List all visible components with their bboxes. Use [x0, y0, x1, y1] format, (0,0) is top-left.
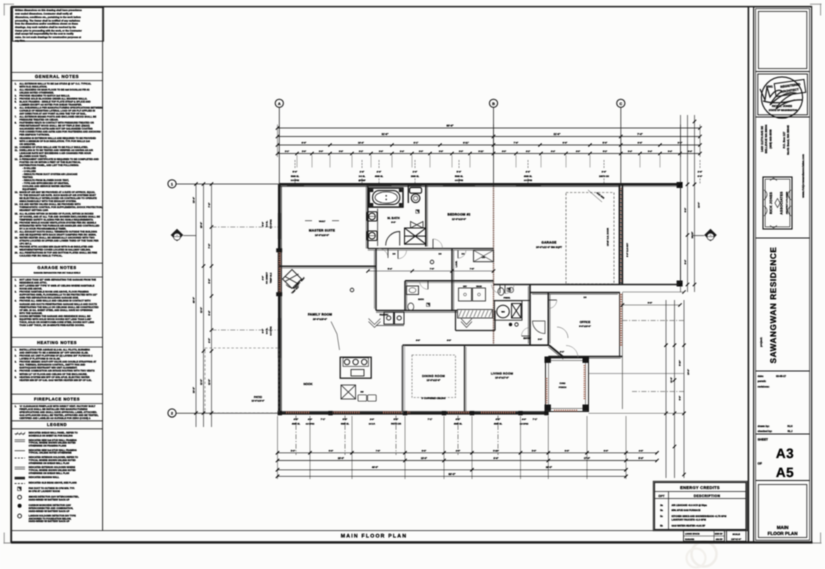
interior wall bedroom2 west — [425, 184, 427, 246]
svg-text:69'-0": 69'-0" — [448, 473, 456, 476]
svg-text:20'-6"x21'-6" 596 SQFT: 20'-6"x21'-6" 596 SQFT — [536, 246, 563, 249]
interior wall master-family — [279, 265, 376, 267]
svg-text:2'-6": 2'-6" — [698, 171, 703, 174]
svg-text:9' COFFERED CEILING: 9' COFFERED CEILING — [422, 397, 446, 400]
svg-text:1.: 1. — [15, 279, 17, 282]
svg-text:5.: 5. — [15, 101, 17, 104]
svg-text:6.: 6. — [15, 107, 17, 110]
svg-text:3'-0": 3'-0" — [419, 150, 423, 153]
master bath vanity sinks — [377, 209, 379, 246]
general notes header — [11, 71, 102, 73]
svg-text:9'-0": 9'-0" — [563, 142, 568, 145]
svg-text:11'-6": 11'-6" — [208, 379, 211, 385]
svg-text:5'-0": 5'-0" — [293, 171, 298, 174]
svg-text:5'-6": 5'-6" — [422, 449, 426, 452]
svg-text:PATIO DR: PATIO DR — [391, 422, 402, 425]
grid line B stem — [493, 107, 495, 186]
svg-text:1620 SF: 1620 SF — [715, 533, 724, 536]
svg-text:2'-1": 2'-1" — [285, 150, 289, 153]
office bottom wall — [548, 356, 622, 358]
svg-text:4'-0": 4'-0" — [456, 449, 460, 452]
svg-text:5.: 5. — [15, 315, 17, 318]
svg-text:46'-0": 46'-0" — [372, 466, 378, 469]
svg-text:3'-0": 3'-0" — [538, 338, 542, 341]
svg-text:7'-0": 7'-0" — [637, 133, 643, 136]
svg-text:LAVATORY FAUCETS <1.0 GPM: LAVATORY FAUCETS <1.0 GPM — [672, 519, 706, 522]
svg-text:4.0 DPS2: 4.0 DPS2 — [306, 422, 315, 425]
svg-text:M. BATH: M. BATH — [387, 216, 399, 220]
svg-text:SAWANGWAN RESIDENCE: SAWANGWAN RESIDENCE — [769, 247, 778, 364]
svg-text:4'-0": 4'-0" — [456, 418, 461, 421]
svg-text:permit:: permit: — [758, 380, 767, 383]
svg-text:SMOKE DETECTOR 110V INTERCONNE: SMOKE DETECTOR 110V INTERCONNECTED, — [29, 496, 80, 499]
exterior wall bottom — [279, 412, 546, 415]
laundry room extension — [455, 311, 457, 331]
svg-text:8'-0" CLG HGT: 8'-0" CLG HGT — [626, 242, 629, 257]
svg-text:7'-6": 7'-6" — [514, 142, 519, 145]
svg-text:www.rickjonesandassociates.com: www.rickjonesandassociates.com — [802, 154, 805, 199]
grid bubble C — [617, 99, 625, 107]
grid bubble B — [489, 99, 497, 107]
svg-text:project:: project: — [760, 337, 763, 347]
svg-text:P.O. Box 127: P.O. Box 127 — [782, 131, 786, 148]
garage door hatch ladder — [619, 188, 623, 189]
svg-text:2.: 2. — [15, 355, 17, 358]
svg-text:HEATER MIN EF OF 0.93. GAS WAT: HEATER MIN EF OF 0.93. GAS WATER HEATER … — [19, 379, 92, 382]
svg-text:THAN 1-3/8" THICK, OR 20-MINUT: THAN 1-3/8" THICK, OR 20-MINUTE FIRE-RAT… — [19, 324, 84, 327]
entry door arcs — [533, 321, 546, 334]
svg-text:ENERGY CREDITS: ENERGY CREDITS — [680, 485, 720, 490]
svg-text:OPT: OPT — [658, 494, 664, 498]
svg-text:21'-6": 21'-6" — [554, 133, 562, 136]
svg-text:6'-6": 6'-6" — [638, 142, 643, 145]
top extension lines — [277, 125, 279, 158]
svg-text:HEATING NOTES: HEATING NOTES — [37, 340, 77, 345]
svg-text:4040 SL: 4040 SL — [454, 422, 463, 425]
bottom dimension row 2 — [278, 460, 658, 462]
office east wall red hatch — [619, 293, 621, 357]
svg-text:OFFICE: OFFICE — [580, 320, 591, 324]
svg-text:4'-0": 4'-0" — [294, 418, 299, 421]
laundry counter hatch — [458, 310, 493, 319]
interior wall hallbath-laundry — [451, 249, 453, 311]
svg-text:date:: date: — [758, 375, 764, 378]
entry diagonal wall — [549, 345, 564, 357]
svg-text:TYPICAL WHERE SHOWN UNLESS NOT: TYPICAL WHERE SHOWN UNLESS NOTED — [29, 459, 76, 462]
svg-text:5'-0": 5'-0" — [639, 457, 644, 460]
svg-text:3'-4": 3'-4" — [400, 150, 404, 153]
svg-text:6'-0": 6'-0" — [329, 449, 333, 452]
svg-text:10'-4": 10'-4" — [358, 142, 364, 145]
svg-text:GARAGE: GARAGE — [541, 241, 556, 245]
bottom extension lines — [277, 416, 279, 479]
bath door arc — [386, 232, 400, 246]
svg-text:13.: 13. — [15, 191, 19, 194]
top wall windows — [287, 183, 304, 186]
porch wall red dashes — [546, 378, 548, 404]
fan symbols — [416, 210, 419, 213]
svg-text:21'-0": 21'-0" — [698, 202, 701, 208]
svg-text:19.: 19. — [15, 245, 19, 248]
svg-text:4'-6": 4'-6" — [639, 449, 643, 452]
svg-text:6'-0": 6'-0" — [394, 418, 399, 421]
porch posts — [545, 357, 551, 363]
svg-text:8'-4": 8'-4" — [684, 260, 687, 264]
interior wall corridor south of baths — [368, 248, 494, 250]
grid line 2 — [176, 412, 280, 414]
legend header — [11, 420, 102, 422]
svg-text:2-8: 2-8 — [584, 296, 587, 299]
svg-text:4040 SL: 4040 SL — [375, 175, 384, 178]
svg-text:02-05-17: 02-05-17 — [776, 375, 787, 378]
interior wall bath2 west — [404, 281, 406, 311]
svg-text:2-6: 2-6 — [462, 253, 465, 256]
svg-text:5'-2": 5'-2" — [603, 150, 607, 153]
svg-text:40'-0": 40'-0" — [193, 297, 196, 303]
grid bubble 1 — [168, 180, 176, 188]
fireplace direct vent diamond — [283, 270, 302, 289]
svg-text:3'-8": 3'-8" — [439, 150, 443, 153]
svg-text:4'-2": 4'-2" — [526, 150, 530, 153]
area tabulation box — [684, 531, 725, 542]
svg-text:4'-6": 4'-6" — [416, 339, 420, 342]
living dining top wall — [403, 344, 550, 346]
svg-text:revisions:: revisions: — [758, 385, 770, 388]
svg-text:5'-6": 5'-6" — [262, 222, 265, 226]
svg-text:3'-0": 3'-0" — [319, 150, 323, 153]
svg-text:TEMP GLZ: TEMP GLZ — [270, 272, 273, 283]
svg-text:12'-0"x12'-6": 12'-0"x12'-6" — [427, 379, 441, 382]
heating notes header — [11, 336, 102, 338]
svg-text:6'-0": 6'-0" — [698, 175, 703, 178]
rick jones associates logo — [763, 177, 792, 229]
svg-text:PANTRY: PANTRY — [380, 314, 389, 317]
svg-text:ASSOCIATES: ASSOCIATES — [780, 191, 784, 215]
svg-text:12'-0"x13'-0": 12'-0"x13'-0" — [452, 218, 466, 221]
svg-text:LIVING ROOM: LIVING ROOM — [491, 372, 514, 376]
svg-text:31'-6": 31'-6" — [382, 133, 390, 136]
svg-text:8'-9": 8'-9" — [302, 142, 307, 145]
svg-text:9.: 9. — [15, 137, 17, 140]
svg-text:11'-0": 11'-0" — [200, 307, 203, 313]
svg-text:3'-8": 3'-8" — [339, 150, 343, 153]
svg-text:6-0 SL: 6-0 SL — [266, 327, 269, 334]
title block cell dividers — [756, 71, 810, 73]
svg-text:FAMILY ROOM: FAMILY ROOM — [308, 313, 332, 317]
right vertical dimension lines garage — [680, 115, 682, 292]
svg-text:3'-4": 3'-4" — [668, 150, 672, 153]
svg-text:DW: DW — [361, 391, 364, 394]
toilet alcove wall — [407, 184, 409, 203]
svg-text:3'-4": 3'-4" — [648, 150, 652, 153]
svg-text:LEGEND: LEGEND — [47, 422, 67, 427]
svg-text:3'-4": 3'-4" — [688, 150, 692, 153]
watermark circle bottom right — [692, 542, 717, 567]
svg-text:23'-0": 23'-0" — [338, 457, 344, 460]
svg-text:2: 2 — [171, 412, 173, 416]
title block outer frame — [754, 7, 812, 543]
svg-text:4040 SL: 4040 SL — [494, 422, 503, 425]
svg-text:A3: A3 — [776, 446, 794, 461]
garage door wall grid C — [619, 184, 621, 284]
kitchen island with cooktop — [340, 357, 371, 378]
svg-text:CVRD: CVRD — [560, 382, 566, 385]
svg-text:TYPICAL WHERE SHOWN UNLESS NOT: TYPICAL WHERE SHOWN UNLESS NOTED — [29, 469, 76, 472]
garage notes header — [11, 262, 102, 264]
svg-text:1: 1 — [171, 182, 173, 186]
svg-text:7'-6": 7'-6" — [470, 268, 474, 271]
kitchen counter edge — [376, 325, 404, 327]
svg-text:4040 SL: 4040 SL — [524, 175, 533, 178]
svg-text:BATH: BATH — [418, 298, 424, 301]
svg-text:DINING ROOM: DINING ROOM — [422, 374, 445, 378]
svg-text:2'-0": 2'-0" — [370, 418, 374, 421]
svg-text:4'-4": 4'-4" — [551, 150, 555, 153]
svg-text:HARD-WIRED W/ BATTERY BACK-UP: HARD-WIRED W/ BATTERY BACK-UP — [29, 499, 70, 502]
svg-text:4'-0": 4'-0" — [576, 150, 580, 153]
svg-text:OTHERWISE ON FRAMING PLANS: OTHERWISE ON FRAMING PLANS — [29, 445, 67, 448]
svg-text:INDICATES BEARING WALL: INDICATES BEARING WALL — [29, 476, 60, 479]
bottom dimension row 1 — [278, 452, 658, 454]
svg-text:4'-0": 4'-0" — [496, 418, 501, 421]
svg-text:(408) 443-3008: (408) 443-3008 — [768, 129, 772, 149]
svg-text:20.: 20. — [15, 252, 19, 255]
svg-text:6-0 DPS2: 6-0 DPS2 — [270, 326, 273, 336]
svg-text:SHEET: SHEET — [758, 438, 768, 442]
svg-text:5'-10": 5'-10" — [679, 360, 682, 366]
svg-text:OF: OF — [758, 462, 762, 466]
svg-text:3.: 3. — [15, 361, 17, 364]
interior wall kitchen north — [376, 310, 457, 312]
stamp signature — [760, 87, 803, 109]
interior wall dining east — [464, 345, 466, 411]
svg-text:4'-0": 4'-0" — [308, 418, 312, 421]
svg-text:6040 SL: 6040 SL — [341, 422, 350, 425]
architect stamp seal — [761, 77, 802, 118]
section marker left — [171, 229, 196, 242]
garage interior dashed outline — [566, 193, 614, 285]
svg-text:HARD-WIRED W/ BATTERY BACK-UP: HARD-WIRED W/ BATTERY BACK-UP — [29, 510, 70, 513]
svg-text:2'-0": 2'-0" — [413, 171, 418, 174]
svg-text:RLH: RLH — [787, 425, 792, 428]
bottom window centerline drops — [295, 416, 297, 456]
svg-text:9'-0": 9'-0" — [391, 221, 395, 224]
svg-text:7'-0": 7'-0" — [430, 268, 434, 271]
svg-text:3-0 SL: 3-0 SL — [359, 175, 366, 178]
svg-text:7'-6": 7'-6" — [208, 203, 211, 208]
svg-text:CARBON MONOXIDE DETECTOR 110V: CARBON MONOXIDE DETECTOR 110V — [29, 504, 72, 507]
grid line A stem — [278, 107, 280, 183]
entry front wall — [564, 357, 580, 359]
svg-text:INDICATES INTERIOR HOLDOWN, RE: INDICATES INTERIOR HOLDOWN, REFER TO — [29, 456, 79, 459]
svg-text:8'-1": 8'-1" — [414, 142, 419, 145]
interior wall pantry-kitchen west — [375, 249, 377, 311]
svg-text:20'-4": 20'-4" — [687, 369, 690, 375]
svg-text:INDICATES EXTERIOR HOLDOWN WHE: INDICATES EXTERIOR HOLDOWN WHERE — [29, 466, 76, 469]
svg-text:16.: 16. — [15, 221, 19, 224]
svg-text:11.: 11. — [15, 149, 19, 152]
vault symbol — [305, 220, 312, 222]
grid bubble 2 — [168, 409, 176, 417]
smoke detectors — [430, 260, 434, 264]
svg-text:AIR LEAKAGE <3.0 ACH @ 50pa: AIR LEAKAGE <3.0 ACH @ 50pa — [672, 504, 708, 507]
linen closet hall — [474, 250, 494, 262]
svg-text:LIN.: LIN. — [482, 256, 486, 259]
svg-text:ANCHORED TO FOUNDATION BELOW,: ANCHORED TO FOUNDATION BELOW, — [29, 517, 72, 520]
svg-text:20'-0"x15'-6": 20'-0"x15'-6" — [313, 318, 327, 321]
svg-text:ARCHITECT & PLANNER: ARCHITECT & PLANNER — [785, 191, 788, 214]
svg-text:C: C — [619, 102, 622, 106]
svg-text:PATIO: PATIO — [254, 395, 263, 399]
grid line 1 — [176, 183, 279, 185]
svg-text:13'-4": 13'-4" — [193, 197, 196, 203]
svg-text:16'-10": 16'-10" — [691, 232, 694, 239]
utility closet water heater — [495, 301, 523, 320]
porch outline — [546, 358, 589, 412]
svg-text:3'-4": 3'-4" — [628, 150, 632, 153]
exterior wall top — [279, 183, 680, 186]
svg-text:1/4"=1'-0": 1/4"=1'-0" — [731, 538, 741, 541]
grid line B shear wall red dotted — [493, 186, 495, 344]
svg-text:6'-2": 6'-2" — [560, 350, 564, 353]
svg-text:4.0 DPS2: 4.0 DPS2 — [520, 422, 529, 425]
svg-text:2040 SL: 2040 SL — [411, 175, 420, 178]
svg-text:5040 SL: 5040 SL — [455, 175, 464, 178]
svg-text:7'-1": 7'-1" — [533, 418, 538, 421]
svg-text:16'x8' O.H. DOOR: 16'x8' O.H. DOOR — [607, 227, 610, 246]
svg-text:26'-0": 26'-0" — [546, 466, 552, 469]
svg-text:@TEMP: @TEMP — [358, 179, 366, 182]
svg-text:FLOOR PLAN: FLOOR PLAN — [768, 531, 799, 536]
svg-text:3'-0": 3'-0" — [459, 150, 463, 153]
svg-text:SCALE: SCALE — [732, 533, 740, 536]
svg-text:4'-0": 4'-0" — [502, 150, 506, 153]
svg-text:10'-2": 10'-2" — [193, 387, 196, 393]
svg-text:11'-4": 11'-4" — [670, 377, 673, 383]
svg-text:6'-10": 6'-10" — [493, 449, 499, 452]
svg-text:16 D.P.: 16 D.P. — [369, 422, 376, 425]
left notes column divider — [102, 7, 104, 531]
kitchen sink counter — [358, 395, 367, 401]
left wall window family — [278, 318, 281, 358]
svg-text:OTHERWISE ON SHEAR WALL PLAN: OTHERWISE ON SHEAR WALL PLAN — [29, 462, 70, 465]
closet fan triangles — [411, 222, 424, 229]
svg-text:LIVING SPACE: LIVING SPACE — [685, 533, 700, 536]
svg-text:80 CFM AT LAUNDRY ROOM: 80 CFM AT LAUNDRY ROOM — [29, 490, 60, 493]
svg-text:7'-1": 7'-1" — [321, 418, 326, 421]
svg-text:5-0 DPS2: 5-0 DPS2 — [291, 179, 299, 182]
svg-text:INDICATES SHEAR WALL PANEL. RE: INDICATES SHEAR WALL PANEL. REFER TO — [29, 431, 78, 434]
bottom dimension row 4 overall — [278, 475, 627, 477]
svg-text:FIREPLACE NOTES: FIREPLACE NOTES — [34, 397, 80, 402]
svg-text:A: A — [278, 102, 281, 106]
svg-text:3'-6": 3'-6" — [379, 150, 383, 153]
left window centerline — [212, 226, 279, 228]
svg-text:LAUN.: LAUN. — [455, 260, 458, 267]
svg-text:2-8: 2-8 — [393, 253, 396, 256]
svg-text:B: B — [492, 102, 495, 106]
grid line C stem — [620, 107, 622, 184]
svg-text:464 SF: 464 SF — [716, 538, 723, 541]
svg-text:18.: 18. — [15, 236, 19, 239]
svg-text:60'-6": 60'-6" — [446, 124, 454, 127]
svg-text:8'-4": 8'-4" — [388, 268, 392, 271]
lower right vertical dimension lines — [665, 300, 667, 478]
office walls — [530, 292, 620, 294]
corridor dimension row — [368, 270, 494, 272]
left wall fireplace red hatch — [278, 250, 281, 296]
svg-text:WH: WH — [501, 311, 505, 314]
master closet shelves — [405, 228, 427, 244]
master bath tub — [369, 188, 403, 207]
svg-text:GARAGE NOTES: GARAGE NOTES — [37, 265, 76, 270]
sheet name cell — [758, 485, 806, 538]
laundry washer dryer — [459, 288, 472, 301]
svg-text:7'-0": 7'-0" — [208, 244, 211, 249]
svg-text:INDICATES NEW 2x6 STUD WALL FR: INDICATES NEW 2x6 STUD WALL FRAMING — [29, 439, 77, 442]
svg-text:6'-0": 6'-0" — [262, 329, 265, 333]
svg-text:CERTIFIED AND LABELED AS SUITA: CERTIFIED AND LABELED AS SUITABLE FOR ZE… — [19, 417, 90, 420]
svg-text:5'-6": 5'-6" — [565, 449, 569, 452]
svg-text:4.: 4. — [15, 300, 17, 303]
svg-text:2'-8": 2'-8" — [360, 171, 365, 174]
svg-text:2-8: 2-8 — [439, 253, 442, 256]
svg-text:3.: 3. — [15, 291, 17, 294]
svg-text:5'-0": 5'-0" — [603, 142, 608, 145]
svg-text:checked by:: checked by: — [758, 430, 773, 433]
svg-text:GARAGE: GARAGE — [685, 538, 695, 541]
scale box — [727, 531, 747, 542]
svg-text:9'-0"x10'-6": 9'-0"x10'-6" — [579, 325, 591, 328]
top dimension row 1 overall — [278, 127, 701, 129]
svg-text:5040 SL: 5040 SL — [291, 175, 300, 178]
svg-text:GAS WATER HEATER >0.91 EF: GAS WATER HEATER >0.91 EF — [672, 524, 706, 527]
exterior wall left — [278, 184, 281, 413]
patio dashed outline — [205, 348, 279, 413]
svg-text:OTHERWISE ON SHEAR WALL PLAN: OTHERWISE ON SHEAR WALL PLAN — [29, 472, 70, 475]
interior wall dining west — [402, 345, 404, 413]
office dim dashdot — [622, 320, 684, 322]
svg-text:BEDROOM #2: BEDROOM #2 — [447, 213, 470, 217]
svg-text:4'-0": 4'-0" — [208, 338, 211, 343]
hall bath fixtures — [408, 303, 414, 311]
svg-text:13'-0"x17'-0": 13'-0"x17'-0" — [495, 377, 509, 380]
svg-text:KITCHEN SINKS AND SHOWERHEADS: KITCHEN SINKS AND SHOWERHEADS <1.75 GPM — [672, 515, 727, 518]
svg-text:drawn by:: drawn by: — [758, 425, 770, 428]
master bath toilet — [410, 188, 422, 194]
svg-text:95% AFUE GAS FURNACE: 95% AFUE GAS FURNACE — [672, 509, 701, 512]
svg-text:GARAGE SEPARATION PER IRC TABL: GARAGE SEPARATION PER IRC TABLE R302.6 — [34, 272, 81, 275]
svg-text:15.: 15. — [15, 212, 19, 215]
svg-text:TYPICAL UNLESS NOTED OTHERWISE: TYPICAL UNLESS NOTED OTHERWISE — [29, 452, 72, 455]
svg-text:7'-6": 7'-6" — [376, 449, 380, 452]
svg-text:14.: 14. — [15, 203, 19, 206]
svg-text:NOOK: NOOK — [304, 382, 314, 386]
svg-text:1.: 1. — [15, 405, 17, 408]
bottom wall red hatch segments — [286, 411, 310, 413]
svg-text:4'-0": 4'-0" — [262, 276, 265, 280]
kitchen ovens — [384, 312, 404, 324]
window extension stubs — [296, 155, 298, 168]
hall closet wall — [494, 300, 531, 302]
exterior wall garage bottom — [494, 284, 681, 286]
svg-text:3'-0": 3'-0" — [291, 449, 295, 452]
svg-text:2.: 2. — [15, 285, 17, 288]
svg-text:3'-11": 3'-11" — [478, 150, 483, 153]
svg-text:5'-0": 5'-0" — [604, 449, 608, 452]
powder room fixtures — [498, 288, 504, 296]
svg-text:5'-0": 5'-0" — [457, 171, 462, 174]
